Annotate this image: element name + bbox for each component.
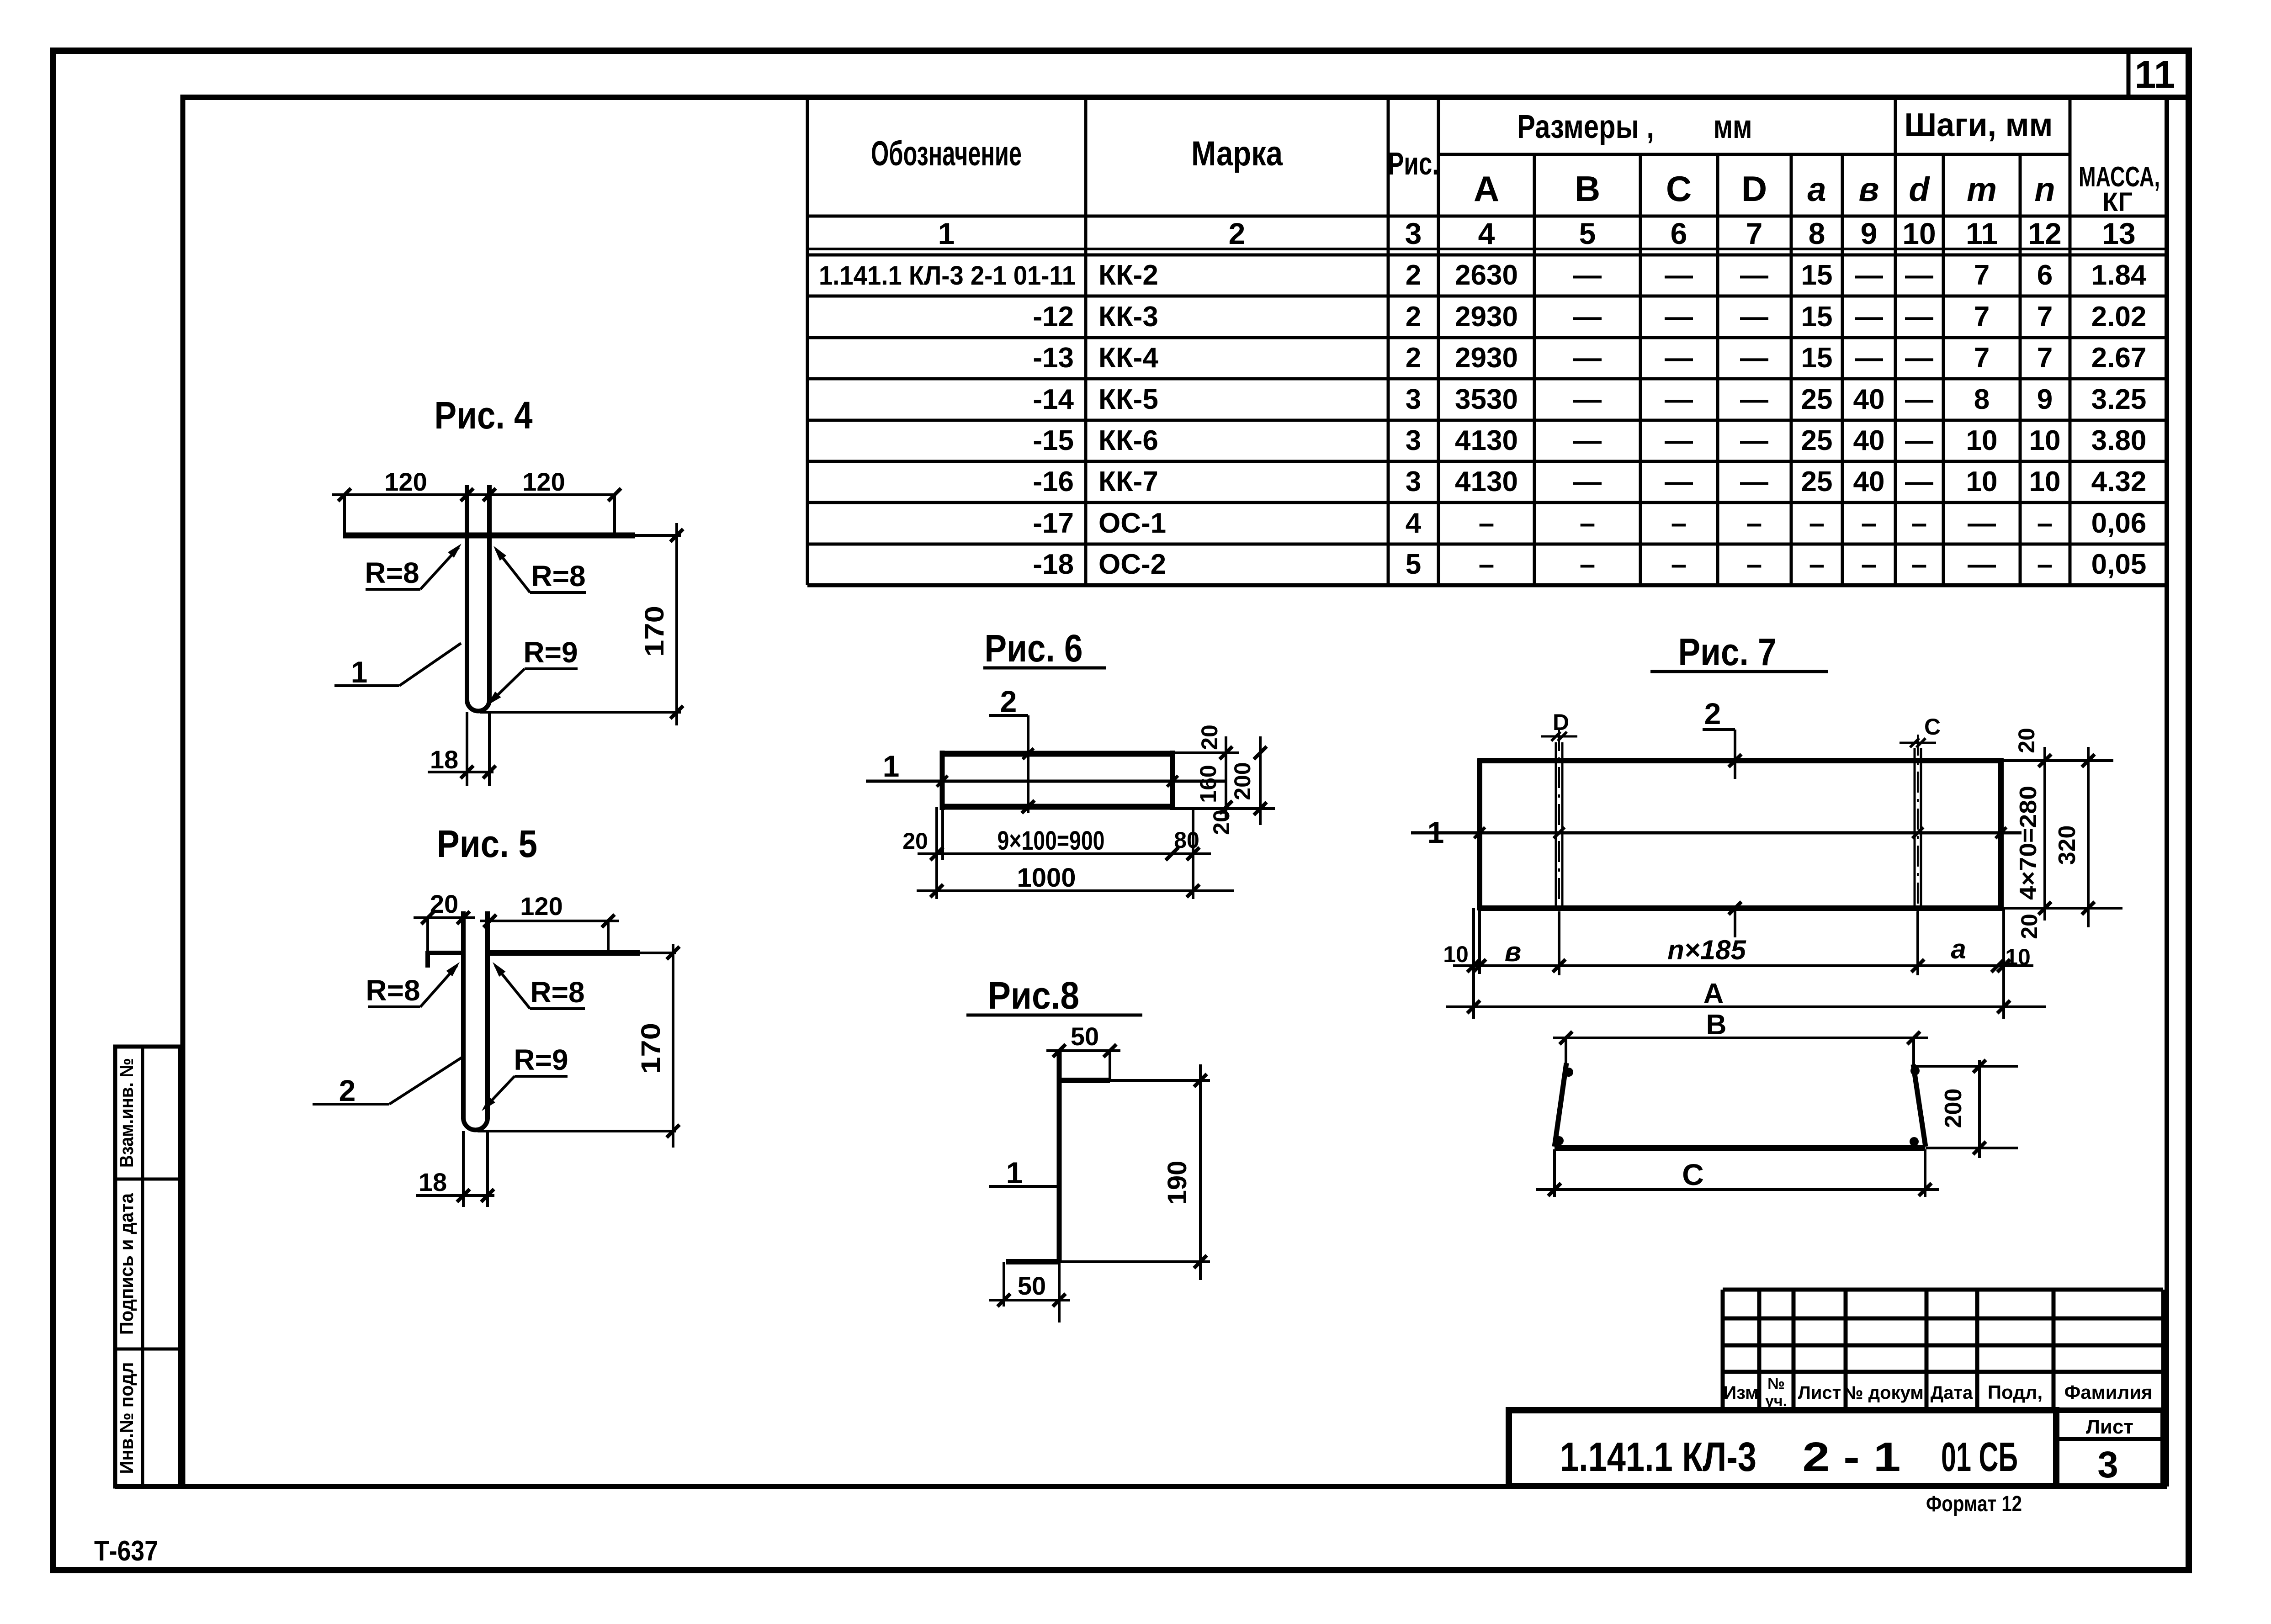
svg-text:9: 9	[1861, 217, 1878, 250]
fig6 left extension lines	[937, 807, 943, 899]
svg-text:–: –	[1911, 549, 1927, 580]
svg-text:—: —	[1665, 384, 1693, 415]
fig5 label R=8 left	[366, 959, 462, 1007]
title block document number box	[1509, 1410, 2056, 1486]
svg-text:2930: 2930	[1455, 301, 1518, 333]
fig6 right dim line 20-160	[1220, 736, 1232, 818]
svg-text:3: 3	[1406, 466, 1421, 497]
fig6 left edge	[940, 751, 945, 810]
left margin label inv	[116, 1362, 137, 1474]
fig4 label R=8 right	[490, 543, 586, 592]
svg-text:—: —	[1905, 466, 1933, 497]
fig7 stirrup bend dots	[1555, 1066, 1920, 1146]
svg-text:20: 20	[430, 889, 458, 918]
svg-text:–: –	[1671, 549, 1687, 580]
svg-text:—: —	[1573, 384, 1602, 415]
fig7 dim label 4x70=280	[2015, 786, 2042, 900]
fig7 bottom dim line n x 185	[1453, 959, 2033, 972]
svg-text:2.67: 2.67	[2091, 342, 2147, 374]
svg-text:–: –	[1861, 549, 1877, 580]
svg-text:№ докум.: № докум.	[1843, 1383, 1929, 1403]
svg-text:4×70=280: 4×70=280	[2015, 786, 2042, 900]
svg-text:7: 7	[1974, 301, 1990, 333]
fig6 bottom dim line 1000	[917, 884, 1234, 897]
fig5 leader 2	[313, 1057, 462, 1107]
fig5 left stub	[428, 951, 463, 968]
svg-text:40: 40	[1853, 384, 1885, 415]
svg-text:B: B	[1706, 1009, 1727, 1041]
fig6 label 1	[883, 749, 900, 783]
fig7 dim label 10 right	[2005, 944, 2031, 970]
fig4 dim line 18	[428, 766, 496, 778]
svg-text:R=8: R=8	[531, 560, 585, 592]
svg-text:7: 7	[1974, 342, 1990, 374]
svg-text:—: —	[1855, 342, 1883, 374]
fig6 bottom dim line 9x100	[918, 847, 1211, 860]
inner drawing frame right line	[2165, 97, 2169, 1486]
svg-text:120: 120	[384, 467, 427, 496]
svg-text:20: 20	[1197, 725, 1222, 750]
fig4 web right line	[487, 485, 492, 701]
fig5 dim line 18	[416, 1189, 494, 1202]
svg-text:9×100=900: 9×100=900	[998, 826, 1105, 856]
svg-text:в: в	[1505, 936, 1521, 967]
fig5 web bottom curve	[463, 1118, 488, 1130]
svg-text:3530: 3530	[1455, 384, 1518, 415]
title block sheet label	[2086, 1416, 2133, 1438]
svg-text:в: в	[1859, 170, 1879, 208]
inner drawing frame bottom line	[115, 1484, 2167, 1489]
svg-text:Т-637: Т-637	[94, 1535, 158, 1567]
fig5 dim label 18	[419, 1168, 447, 1196]
fig8 vertical web	[1057, 1051, 1062, 1263]
svg-text:170: 170	[640, 606, 669, 657]
svg-text:КК-6: КК-6	[1098, 425, 1158, 456]
svg-text:B: B	[1575, 169, 1600, 209]
fig7 dim line B	[1553, 1032, 1928, 1067]
fig7 stirrup bottom	[1555, 1145, 1925, 1151]
svg-text:Рис. 6: Рис. 6	[985, 627, 1083, 670]
svg-text:n: n	[2034, 170, 2055, 208]
fig7 right dim line 320	[2082, 747, 2095, 927]
fig8 bottom leg	[1006, 1259, 1210, 1264]
fig5 right flange	[488, 950, 676, 956]
svg-text:A: A	[1474, 169, 1499, 209]
page number box divider	[2127, 54, 2131, 97]
fig8 dim line 190	[1194, 1064, 1207, 1280]
svg-text:Рис.8: Рис.8	[988, 974, 1079, 1017]
svg-text:—: —	[1905, 342, 1933, 374]
fig4 dim label 18	[430, 745, 458, 774]
fig6 dim label 20 left	[902, 828, 928, 854]
svg-text:320: 320	[2054, 825, 2080, 865]
fig7 label 1	[1427, 815, 1444, 849]
fig5 dim label 170	[636, 1023, 666, 1074]
svg-text:Подпись и дата: Подпись и дата	[116, 1193, 137, 1335]
svg-text:7: 7	[1974, 259, 1990, 291]
left margin label podpis	[116, 1193, 137, 1335]
fig4 top flange	[343, 533, 681, 539]
svg-text:R=8: R=8	[366, 974, 420, 1007]
svg-text:5: 5	[1579, 217, 1596, 250]
svg-text:—: —	[1740, 301, 1768, 333]
fig8 dim label 50 top	[1071, 1022, 1099, 1051]
title block revision grid	[1509, 1290, 2163, 1410]
svg-text:—: —	[1573, 301, 1602, 333]
svg-text:Размеры ,: Размеры ,	[1517, 109, 1654, 145]
fig7 dim label 20 top	[2014, 728, 2039, 753]
svg-text:—: —	[1573, 425, 1602, 456]
fig5 web extension lines	[463, 1131, 488, 1207]
svg-text:25: 25	[1801, 425, 1833, 456]
svg-text:2: 2	[1229, 217, 1246, 250]
fig4 top dim line 120+120	[332, 488, 621, 535]
fig4 title	[435, 394, 533, 437]
fig7 dim D	[1541, 709, 1577, 741]
svg-text:25: 25	[1801, 384, 1833, 415]
svg-text:120: 120	[522, 467, 565, 496]
fig4 label R=9	[484, 636, 578, 708]
svg-text:1.84: 1.84	[2091, 259, 2147, 291]
svg-text:–: –	[2037, 549, 2053, 580]
title block document number text	[1560, 1434, 2018, 1480]
parts table grid	[807, 97, 2167, 585]
svg-text:–: –	[1809, 508, 1825, 539]
svg-text:-12: -12	[1033, 301, 1074, 333]
svg-text:170: 170	[636, 1023, 666, 1074]
fig7 leader 2	[1703, 697, 1741, 779]
svg-text:200: 200	[1230, 762, 1255, 800]
svg-text:—: —	[1740, 425, 1768, 456]
svg-text:50: 50	[1018, 1271, 1046, 1300]
fig7 middle bar with leader 1	[1411, 827, 2022, 838]
fig6 top extension	[1173, 751, 1239, 754]
fig5 label R=9	[478, 1043, 568, 1114]
fig4 web extension lines	[467, 712, 489, 786]
fig7 dim label 320	[2054, 825, 2080, 865]
svg-text:80: 80	[1174, 827, 1199, 853]
svg-text:Рис. 5: Рис. 5	[437, 822, 537, 865]
svg-text:—: —	[1905, 259, 1933, 291]
fig6 top bar	[940, 748, 1173, 759]
svg-text:D: D	[1741, 169, 1767, 209]
svg-text:10: 10	[2029, 466, 2061, 497]
fig6 dim label 80	[1174, 827, 1199, 853]
svg-text:—: —	[1740, 259, 1768, 291]
svg-text:d: d	[1909, 170, 1930, 208]
svg-text:—: —	[1740, 342, 1768, 374]
fig4 dim label 120 right	[522, 467, 565, 496]
svg-text:–: –	[1479, 549, 1494, 580]
svg-text:C: C	[1666, 169, 1692, 209]
svg-text:Марка: Марка	[1191, 134, 1283, 173]
svg-text:a: a	[1951, 934, 1966, 964]
svg-text:0,05: 0,05	[2091, 549, 2147, 580]
svg-text:Взам.инв. №: Взам.инв. №	[116, 1058, 137, 1168]
parts table data rows text	[819, 259, 2147, 580]
svg-text:6: 6	[2037, 259, 2053, 291]
fig7 dim label C bottom	[1682, 1158, 1704, 1191]
svg-text:Шаги, мм: Шаги, мм	[1905, 107, 2053, 143]
svg-text:–: –	[1580, 549, 1595, 580]
document code T-637	[94, 1535, 158, 1567]
svg-text:—: —	[1665, 425, 1693, 456]
svg-text:–: –	[1580, 508, 1595, 539]
svg-text:Рис. 4: Рис. 4	[435, 394, 533, 437]
fig8 title	[966, 974, 1142, 1017]
left margin label vzam	[116, 1058, 137, 1168]
svg-text:1000: 1000	[1017, 863, 1076, 893]
fig7 mesh left edge	[1477, 758, 1482, 910]
svg-text:3: 3	[1406, 425, 1421, 456]
svg-text:4.32: 4.32	[2091, 466, 2147, 497]
svg-text:—: —	[1968, 549, 1996, 580]
svg-text:–: –	[1746, 549, 1762, 580]
svg-text:2: 2	[1406, 301, 1421, 333]
svg-text:–: –	[2037, 508, 2053, 539]
fig6 bottom extension	[1173, 807, 1275, 810]
svg-text:1: 1	[351, 655, 368, 689]
fig6 dim label 160	[1195, 765, 1221, 803]
fig5 title	[437, 822, 537, 865]
svg-text:–: –	[1479, 508, 1494, 539]
svg-text:4130: 4130	[1455, 425, 1518, 456]
fig7 dim label B	[1706, 1009, 1727, 1041]
svg-text:20: 20	[2014, 728, 2039, 753]
fig6 title	[983, 627, 1106, 670]
svg-text:—: —	[1665, 466, 1693, 497]
svg-text:2630: 2630	[1455, 259, 1518, 291]
fig5 label R=8 right	[489, 959, 585, 1009]
svg-text:—: —	[1905, 301, 1933, 333]
svg-text:190: 190	[1162, 1161, 1192, 1205]
fig6 dim label 200	[1230, 762, 1255, 800]
svg-text:9: 9	[2037, 384, 2053, 415]
svg-text:—: —	[1665, 301, 1693, 333]
svg-text:КК-2: КК-2	[1098, 259, 1158, 291]
fig4 bottom extension line	[480, 711, 681, 714]
svg-text:7: 7	[1746, 217, 1763, 250]
svg-text:Лист: Лист	[1798, 1383, 1841, 1403]
svg-text:20: 20	[2016, 914, 2042, 939]
svg-text:Рис. 7: Рис. 7	[1678, 630, 1777, 673]
fig8 top leg	[1059, 1078, 1210, 1083]
fig6 middle bar with leader 1	[866, 776, 1226, 787]
svg-text:—: —	[1968, 508, 1996, 539]
svg-text:ОС-1: ОС-1	[1098, 508, 1166, 539]
svg-text:2: 2	[1000, 684, 1017, 718]
fig7 dim label A	[1703, 978, 1724, 1010]
fig4 web left line	[465, 485, 469, 701]
svg-text:Изм: Изм	[1723, 1383, 1758, 1403]
fig4 leader 1	[334, 643, 461, 689]
svg-text:R=9: R=9	[514, 1043, 568, 1076]
svg-text:—: —	[1573, 342, 1602, 374]
svg-text:1.141.1 КЛ-3: 1.141.1 КЛ-3	[1560, 1434, 1756, 1480]
svg-text:КК-3: КК-3	[1098, 301, 1158, 333]
fig6 right edge	[1170, 751, 1175, 810]
fig7 dim label 200	[1940, 1089, 1967, 1128]
svg-text:–: –	[1809, 549, 1825, 580]
svg-text:–: –	[1911, 508, 1927, 539]
fig7 right extension top	[2003, 759, 2113, 762]
fig7 stirrup right leg	[1913, 1064, 1926, 1147]
svg-text:a: a	[1807, 170, 1826, 208]
fig8 top dim line 50	[1046, 1044, 1120, 1080]
svg-text:Подл,: Подл,	[1988, 1381, 2043, 1403]
svg-text:№: №	[1767, 1375, 1785, 1392]
svg-text:5: 5	[1406, 549, 1421, 580]
fig5 bottom extension line	[478, 1130, 676, 1132]
fig6 dim label 20 bottom	[1209, 809, 1234, 835]
svg-text:m: m	[1967, 170, 1997, 208]
fig8 leader 1	[989, 1156, 1058, 1190]
svg-text:3.80: 3.80	[2091, 425, 2147, 456]
svg-text:Обозначение: Обозначение	[871, 134, 1022, 173]
svg-text:1: 1	[1427, 815, 1444, 849]
svg-text:160: 160	[1195, 765, 1221, 803]
svg-text:40: 40	[1853, 425, 1885, 456]
svg-text:n×185: n×185	[1667, 935, 1746, 965]
fig7 dim label 10 left	[1443, 942, 1469, 967]
svg-text:C: C	[1682, 1158, 1704, 1191]
svg-text:200: 200	[1940, 1089, 1967, 1128]
title block sheet number 3	[2097, 1444, 2118, 1486]
svg-text:КК-4: КК-4	[1098, 342, 1158, 374]
svg-text:3: 3	[1405, 217, 1422, 250]
fig7 right extension bottom	[2003, 907, 2122, 910]
svg-text:—: —	[1573, 259, 1602, 291]
svg-text:КК-7: КК-7	[1098, 466, 1158, 497]
svg-text:—: —	[1740, 384, 1768, 415]
fig7 mesh top bar	[1478, 758, 2003, 763]
fig5 web left line	[461, 911, 466, 1119]
svg-text:D: D	[1553, 709, 1569, 735]
svg-text:КК-5: КК-5	[1098, 384, 1158, 415]
parts table header text	[871, 107, 2160, 250]
svg-text:11: 11	[1966, 217, 1998, 250]
svg-text:1.141.1 КЛ-3 2-1 01-11: 1.141.1 КЛ-3 2-1 01-11	[819, 261, 1076, 291]
svg-text:2: 2	[1704, 697, 1721, 730]
fig6 dim label 20 top	[1197, 725, 1222, 750]
fig7 bar C	[1915, 735, 1921, 928]
svg-text:–: –	[1861, 508, 1877, 539]
fig6 right extension line 80	[1192, 809, 1194, 899]
fig6 dim label 9x100=900	[998, 826, 1105, 856]
fig6 right dim line 200	[1254, 736, 1267, 825]
fig7 dim label n x 185	[1667, 935, 1746, 965]
fig5 dim line 20	[414, 911, 475, 953]
svg-text:50: 50	[1071, 1022, 1099, 1051]
svg-text:-17: -17	[1033, 508, 1074, 539]
svg-text:–: –	[1671, 508, 1687, 539]
svg-text:7: 7	[2037, 301, 2053, 333]
fig5 dim label 120	[520, 892, 562, 920]
svg-text:Инв.№ подл: Инв.№ подл	[116, 1362, 137, 1474]
svg-text:2: 2	[1406, 342, 1421, 374]
fig7 right dim line 20-280-20	[2038, 747, 2051, 920]
svg-text:-13: -13	[1033, 342, 1074, 374]
fig6 dim label 1000	[1017, 863, 1076, 893]
svg-text:-16: -16	[1033, 466, 1074, 497]
svg-text:—: —	[1855, 259, 1883, 291]
svg-text:18: 18	[419, 1168, 447, 1196]
fig8 bottom dim line 50	[989, 1262, 1070, 1322]
svg-text:мм: мм	[1714, 109, 1752, 145]
fig8 dim label 190	[1162, 1161, 1192, 1205]
left margin strip boxes	[115, 1047, 180, 1486]
svg-text:R=9: R=9	[523, 636, 578, 669]
svg-text:3.25: 3.25	[2091, 384, 2147, 415]
svg-text:—: —	[1740, 466, 1768, 497]
svg-text:01 СБ: 01 СБ	[1941, 1434, 2018, 1480]
fig7 dim label v	[1505, 936, 1521, 967]
svg-text:15: 15	[1801, 342, 1833, 374]
svg-text:11: 11	[2135, 53, 2175, 96]
svg-text:25: 25	[1801, 466, 1833, 497]
fig7 bottom extension lines	[1474, 908, 2004, 1019]
fig5 dim line 170	[667, 944, 679, 1148]
svg-text:2.02: 2.02	[2091, 301, 2147, 333]
svg-text:8: 8	[1974, 384, 1990, 415]
fig7 dim line C	[1536, 1149, 1939, 1197]
svg-text:-14: -14	[1033, 384, 1074, 415]
svg-text:Фамилия: Фамилия	[2064, 1381, 2152, 1403]
svg-text:40: 40	[1853, 466, 1885, 497]
fig7 mesh bottom bar	[1478, 902, 2003, 937]
svg-text:12: 12	[2028, 217, 2061, 250]
svg-text:10: 10	[2005, 944, 2031, 970]
fig7 dim C	[1900, 714, 1941, 747]
svg-text:15: 15	[1801, 301, 1833, 333]
svg-text:3: 3	[2097, 1444, 2118, 1486]
svg-text:4: 4	[1478, 217, 1495, 250]
fig7 title	[1650, 630, 1828, 673]
fig7 stirrup left leg	[1555, 1063, 1566, 1147]
svg-text:-15: -15	[1033, 425, 1074, 456]
fig4 dim label 120 left	[384, 467, 427, 496]
svg-text:C: C	[1924, 714, 1941, 740]
inner drawing frame top line	[181, 95, 2189, 100]
svg-text:Лист: Лист	[2086, 1416, 2133, 1438]
svg-text:R=8: R=8	[365, 556, 419, 589]
svg-text:10: 10	[1443, 942, 1469, 967]
svg-text:10: 10	[1966, 466, 1998, 497]
svg-text:1: 1	[938, 217, 955, 250]
svg-text:10: 10	[2029, 425, 2061, 456]
svg-text:7: 7	[2037, 342, 2053, 374]
svg-text:A: A	[1703, 978, 1724, 1010]
title block header labels	[1723, 1375, 2152, 1410]
title block sheet box	[2056, 1410, 2163, 1486]
svg-text:-18: -18	[1033, 549, 1074, 580]
svg-text:1: 1	[1006, 1156, 1023, 1190]
fig8 dim label 50 bottom	[1018, 1271, 1046, 1300]
svg-text:4130: 4130	[1455, 466, 1518, 497]
fig7 dim label a	[1951, 934, 1966, 964]
fig5 dim line 120	[480, 915, 619, 953]
fig7 dim label 20 bottom	[2016, 914, 2042, 939]
svg-text:2: 2	[339, 1074, 356, 1107]
svg-text:20: 20	[1209, 809, 1234, 835]
svg-text:–: –	[1746, 508, 1762, 539]
svg-text:120: 120	[520, 892, 562, 920]
fig4 web bottom curve	[467, 700, 489, 711]
page number 11	[2135, 53, 2175, 96]
svg-text:—: —	[1573, 466, 1602, 497]
svg-text:3: 3	[1406, 384, 1421, 415]
fig6 leader 2	[989, 684, 1035, 813]
